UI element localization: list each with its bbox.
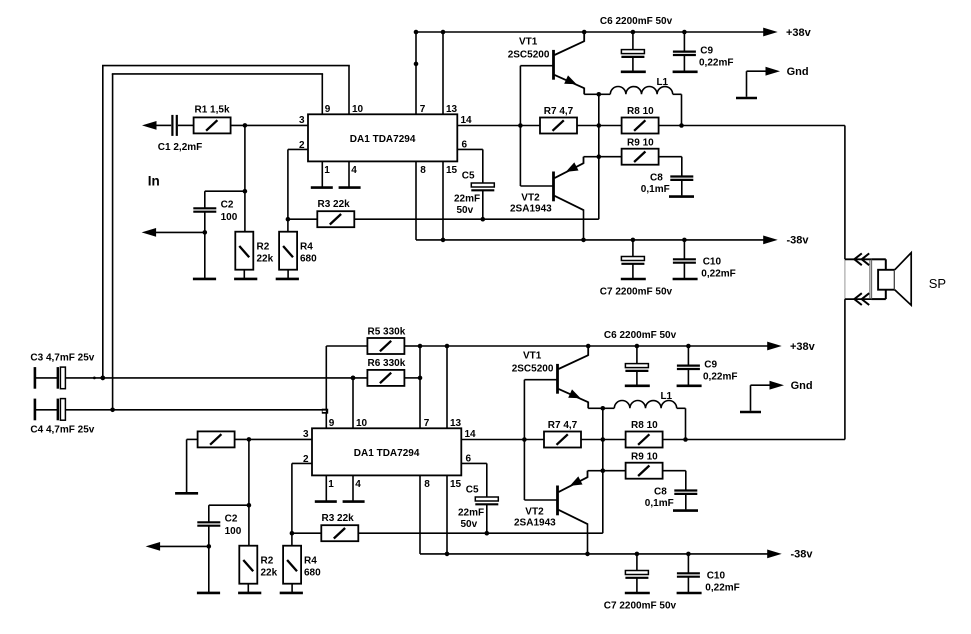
pin 7 wire to +38v rail (channel B) — [419, 346, 421, 428]
wire output bus channel B to speaker — [844, 299, 846, 439]
wire C3 mute line to R6 (shared) — [65, 377, 367, 379]
pin 10 wire up-left (to C3 line) — [348, 66, 350, 115]
node: channel B pin10 joins mute line — [351, 376, 356, 381]
wire C2 to ground (channel B) — [208, 526, 210, 593]
wire faint bus segment between speaker terminals — [844, 259, 846, 299]
node: output node on R8 row (channel A) — [597, 123, 602, 128]
svg-text:VT1: VT1 — [523, 350, 542, 361]
svg-text:R2: R2 — [257, 241, 270, 252]
ground Gnd arrow (channel B) — [740, 380, 813, 412]
svg-text:2: 2 — [303, 454, 309, 465]
node: square junction stby line on pin 9 (channel B) — [322, 409, 328, 414]
ground bar (channel B input) — [175, 492, 198, 495]
wire pin 6 to C5 (channel B) — [461, 462, 487, 464]
wire R2 to ground (channel B) — [247, 584, 249, 593]
svg-text:Gnd: Gnd — [791, 380, 813, 392]
svg-text:C3 4,7mF 25v: C3 4,7mF 25v — [30, 353, 94, 364]
svg-text:2SC5200: 2SC5200 — [512, 363, 554, 374]
wire pin3 node down to R2 (channel B) — [248, 439, 250, 545]
wire VT2 emitter to R9 node (channel A) — [584, 156, 599, 158]
pin 1 wire and ground (channel B) — [315, 475, 337, 501]
svg-text:0,1mF: 0,1mF — [645, 498, 674, 509]
speaker SP — [870, 253, 946, 306]
wire R8 to speaker line (channel A) — [659, 125, 845, 127]
pin 9 wire up-left (to C4 line) — [321, 74, 323, 114]
svg-text:13: 13 — [450, 418, 462, 429]
svg-text:-38v: -38v — [791, 548, 814, 560]
wire R3 to output node (feedback, channel A) — [354, 218, 599, 220]
wire resistor to ground stub — [187, 438, 198, 440]
svg-text:C9: C9 — [704, 360, 717, 371]
wire pin 14 to R7 (channel A) — [457, 125, 540, 127]
svg-text:8: 8 — [420, 165, 426, 176]
svg-text:In: In — [148, 173, 160, 188]
transistor VT2 2SA1943 (channel B) — [514, 471, 588, 529]
resistor R3 22k (channel B) — [321, 513, 358, 541]
svg-text:VT1: VT1 — [519, 36, 538, 47]
svg-text:C6 2200mF 50v: C6 2200mF 50v — [600, 16, 673, 27]
wire pin 6 to C5 (channel A) — [457, 148, 483, 150]
svg-text:C7 2200mF 50v: C7 2200mF 50v — [604, 601, 677, 612]
node: on pin 7 line (channel B) — [418, 376, 423, 381]
ground bar under C2 (channel A) — [193, 278, 216, 281]
svg-text:100: 100 — [225, 526, 242, 537]
node: pin 10 line terminates on C3 wire — [101, 376, 106, 381]
svg-text:L1: L1 — [656, 77, 668, 88]
node: small tick on mute line — [93, 377, 96, 380]
svg-text:4: 4 — [355, 479, 361, 490]
wire VT2 base feed (channel B) — [524, 499, 557, 501]
pin 8 wire to -38v (channel B) — [419, 475, 421, 554]
node: C2 branch junction (channel A) — [243, 189, 248, 194]
-38v arrow and label (channel B) — [767, 548, 813, 560]
node: VT1 collector on +38v rail (channel A) — [582, 30, 587, 35]
node: C5 on feedback line (channel A) — [481, 217, 486, 222]
node: C7 on -38v rail (channel A) — [631, 238, 636, 243]
capacitor C8 0,1mF (channel A) — [641, 173, 694, 196]
node: pin 9 line terminates on C4 wire — [110, 408, 115, 413]
wire pin 2 to divider (channel A) — [288, 148, 308, 150]
svg-text:0,22mF: 0,22mF — [703, 371, 737, 382]
wire VT2 base feed (channel A) — [520, 185, 553, 187]
wire R6 to pin 7 rail line (channel B) — [404, 377, 420, 379]
resistor R4 680 (channel A) — [279, 232, 317, 270]
wire R1 to pin 3 node (channel A) — [231, 124, 308, 126]
capacitor C10 0,22mF (channel B) — [677, 554, 740, 594]
svg-text:DA1 TDA7294: DA1 TDA7294 — [350, 134, 416, 145]
wire R4 to ground (channel B) — [291, 584, 293, 593]
svg-text:680: 680 — [304, 567, 321, 578]
wire VT2 collector to -38v (channel B) — [587, 523, 589, 554]
wire R8 to speaker line (channel B) — [663, 439, 845, 441]
svg-text:C2: C2 — [225, 514, 238, 525]
wire pin 14 to R7 (channel B) — [461, 439, 544, 441]
wire pin 2 to divider (channel B) — [292, 462, 312, 464]
capacitor C3 4,7mF 25v (mute line) — [30, 353, 94, 389]
resistor R1 (unlabeled, channel B input to ground) — [198, 431, 235, 447]
wire junction to C2 (channel A) — [205, 190, 245, 192]
ground bar under R2 (channel A) — [234, 278, 257, 281]
svg-text:50v: 50v — [461, 519, 478, 530]
wire +38v rail (channel A) — [414, 31, 764, 33]
terminal bar under C8 (channel A) — [669, 195, 694, 198]
input arrow lower (channel A) — [142, 228, 205, 237]
wire output node vertical (channel A) — [598, 94, 600, 219]
wire -38v rail (channel A) — [416, 239, 764, 241]
svg-text:R7 4,7: R7 4,7 — [544, 106, 574, 117]
svg-text:6: 6 — [462, 140, 468, 151]
wire junction to C2 (channel B) — [209, 504, 249, 506]
connector chevrons bottom lead — [854, 293, 869, 305]
svg-text:9: 9 — [325, 104, 331, 115]
wire R7 to output node (channel A) — [577, 125, 623, 127]
wire C5 to feedback line (channel A) — [482, 190, 484, 219]
wire C8 to ground bar (channel A) — [681, 180, 683, 196]
wire speaker bottom lead — [845, 298, 872, 300]
capacitor C8 0,1mF (channel B) — [645, 487, 698, 510]
svg-text:10: 10 — [356, 418, 368, 429]
op-amp IC DA1 TDA7294 (channel B) — [312, 428, 461, 475]
wire junction to R3 (channel A) — [288, 218, 317, 220]
node: on pin 7 line (channel A) — [414, 62, 419, 67]
wire base-drive vertical (channel B) — [523, 380, 525, 500]
svg-text:13: 13 — [446, 104, 458, 115]
resistor R8 10 (channel A) — [622, 106, 659, 134]
node: pin 14 line feeds bases (channel B) — [522, 437, 527, 442]
node: output node at L1 (channel A) — [597, 92, 602, 97]
wire +38v rail (channel B) — [420, 345, 768, 347]
svg-text:0,22mF: 0,22mF — [701, 269, 735, 280]
svg-text:0,22mF: 0,22mF — [705, 583, 739, 594]
capacitor C6 2200mF 50v (channel A) — [600, 16, 673, 72]
node: channel A pin10 joins mute line — [101, 376, 106, 381]
svg-text:C5: C5 — [466, 484, 479, 495]
node: C2 branch junction (channel B) — [247, 503, 252, 508]
svg-text:+38v: +38v — [790, 341, 816, 353]
capacitor C6 2200mF 50v (channel B) — [604, 330, 677, 386]
node: L1 joins R8 output (channel B) — [683, 437, 688, 442]
svg-text:R9 10: R9 10 — [631, 451, 658, 462]
svg-text:-38v: -38v — [787, 234, 810, 246]
wire R2 to ground (channel A) — [243, 270, 245, 279]
-38v arrow and label (channel A) — [763, 234, 809, 246]
node: output node on R8 row (channel B) — [601, 437, 606, 442]
node: output node at L1 (channel B) — [601, 406, 606, 411]
svg-text:R4: R4 — [300, 241, 313, 252]
wire junction to R3 (channel B) — [292, 532, 321, 534]
resistor R2 22k (channel B) — [239, 546, 277, 584]
wire R5 to +38v rail (channel B) — [404, 345, 420, 347]
node: C9 on +38v rail (channel A) — [682, 30, 687, 35]
node: C6 on +38v rail (channel A) — [631, 30, 636, 35]
pin 4 wire and ground (channel B) — [343, 475, 365, 501]
capacitor C5 22mF 50v (channel B) — [458, 484, 498, 530]
svg-text:22k: 22k — [257, 253, 274, 264]
node: VT1 collector on +38v rail (channel B) — [586, 344, 591, 349]
node: C6 on +38v rail (channel B) — [635, 344, 640, 349]
svg-text:C10: C10 — [707, 571, 726, 582]
svg-text:VT2: VT2 — [521, 192, 540, 203]
svg-text:14: 14 — [461, 115, 473, 126]
wire output bus channel A to speaker — [844, 126, 846, 260]
svg-text:14: 14 — [465, 429, 477, 440]
wire R9 to C8 (channel A) — [659, 156, 682, 158]
svg-text:C2: C2 — [221, 200, 234, 211]
capacitor C2 100 (channel B) — [197, 514, 241, 538]
node: C7 on -38v rail (channel B) — [635, 552, 640, 557]
wire C2 to ground (channel A) — [204, 212, 206, 279]
inductor L1 (channel B) — [603, 391, 686, 440]
svg-text:R7 4,7: R7 4,7 — [548, 420, 578, 431]
svg-text:R3 22k: R3 22k — [322, 513, 355, 524]
wire VT1 emitter to L1 node (channel B) — [588, 407, 603, 409]
svg-text:22k: 22k — [261, 567, 278, 578]
capacitor C4 4,7mF 25v (stby line) — [30, 399, 94, 436]
capacitor C10 0,22mF (channel A) — [673, 240, 736, 280]
capacitor C5 22mF 50v (channel A) — [454, 170, 494, 216]
wire VT2 collector to -38v (channel A) — [583, 209, 585, 240]
wire C1 to R1 — [178, 124, 194, 126]
svg-text:2SA1943: 2SA1943 — [510, 203, 552, 214]
svg-text:R8 10: R8 10 — [627, 106, 654, 117]
node: pin 7 joins +38v rail (channel A) — [414, 30, 419, 35]
pin 4 wire and ground (channel A) — [339, 161, 361, 187]
resistor R9 10 (channel B) — [626, 451, 663, 478]
resistor R7 4,7 (channel B) — [544, 420, 581, 448]
resistor R8 10 (channel B) — [626, 420, 663, 448]
capacitor C7 2200mF 50v (channel B) — [604, 554, 677, 612]
wire output node vertical (channel B) — [602, 408, 604, 533]
pin 13 wire to +38v rail (channel B) — [446, 346, 448, 428]
ground bar under R2 (channel B) — [238, 592, 261, 595]
svg-text:+38v: +38v — [786, 27, 812, 39]
resistor R3 22k (channel A) — [317, 199, 354, 227]
svg-text:22mF: 22mF — [454, 193, 480, 204]
wire pin3 node down to R2 (channel A) — [244, 125, 246, 231]
svg-text:9: 9 — [329, 418, 335, 429]
svg-text:0,1mF: 0,1mF — [641, 184, 670, 195]
pin 7 wire to +38v rail (channel A) — [415, 32, 417, 114]
ground bar under R4 (channel B) — [280, 592, 303, 595]
node: L1 joins R8 output (channel A) — [679, 123, 684, 128]
svg-text:3: 3 — [299, 115, 305, 126]
svg-text:4: 4 — [351, 165, 357, 176]
svg-text:C4 4,7mF 25v: C4 4,7mF 25v — [30, 425, 94, 436]
svg-text:R5 330k: R5 330k — [368, 326, 406, 337]
svg-text:100: 100 — [221, 212, 238, 223]
svg-text:Gnd: Gnd — [787, 66, 809, 78]
connector chevrons top lead — [854, 253, 869, 265]
wire R7 to output node (channel B) — [581, 439, 627, 441]
input arrow In (pin 3 line) — [142, 121, 171, 130]
pin 9 wire up to R5 (channel B) — [325, 346, 327, 428]
inductor L1 (channel A) — [599, 77, 682, 126]
svg-text:2SA1943: 2SA1943 — [514, 517, 556, 528]
svg-text:50v: 50v — [457, 205, 474, 216]
terminal bar under C8 (channel B) — [673, 509, 698, 512]
node: VT2 collector on -38v line (channel A) — [581, 238, 586, 243]
node: C10 on -38v rail (channel A) — [682, 238, 687, 243]
svg-text:R2: R2 — [261, 555, 274, 566]
wire R9 left to node (channel B) — [603, 470, 626, 472]
svg-text:L1: L1 — [660, 391, 672, 402]
node: pin 13 on +38v rail (channel A) — [441, 30, 446, 35]
node: C9 on +38v rail (channel B) — [686, 344, 691, 349]
node: C5 on feedback line (channel B) — [485, 531, 490, 536]
svg-text:15: 15 — [446, 165, 458, 176]
svg-text:7: 7 — [424, 418, 430, 429]
svg-text:0,22mF: 0,22mF — [699, 57, 733, 68]
wire speaker top lead — [845, 258, 872, 260]
svg-text:R3 22k: R3 22k — [318, 199, 351, 210]
node: feedback junction R3/R4 (channel A) — [286, 217, 291, 222]
node: feedback junction R3/R4 (channel B) — [290, 531, 295, 536]
wire C8 to ground bar (channel B) — [685, 494, 687, 510]
ground bar under C2 (channel B) — [197, 592, 220, 595]
pin 8 wire to -38v (channel A) — [415, 161, 417, 240]
node: arrow line meets C2 wire (channel A) — [203, 230, 208, 235]
resistor R1 1,5k — [194, 105, 231, 134]
wire R3 to output node (feedback, channel B) — [358, 532, 603, 534]
+38v arrow and label (channel A) — [763, 27, 811, 39]
wire VT1 base feed (channel B) — [524, 379, 557, 381]
node: R9 tap on output vertical (channel A) — [597, 154, 602, 159]
ground bar under R4 (channel A) — [276, 278, 299, 281]
svg-text:C10: C10 — [703, 257, 722, 268]
wire R9 left to node (channel A) — [599, 156, 622, 158]
svg-text:C9: C9 — [700, 46, 713, 57]
svg-text:3: 3 — [303, 429, 309, 440]
wire VT2 emitter to R9 node (channel B) — [588, 470, 603, 472]
svg-text:C8: C8 — [650, 173, 663, 184]
svg-text:6: 6 — [466, 454, 472, 465]
svg-text:7: 7 — [420, 104, 426, 115]
resistor R7 4,7 (channel A) — [540, 106, 577, 134]
wire -38v rail (channel B) — [420, 553, 768, 555]
pin 1 wire and ground (channel A) — [311, 161, 333, 187]
svg-text:8: 8 — [424, 479, 430, 490]
svg-text:C6 2200mF 50v: C6 2200mF 50v — [604, 330, 677, 341]
svg-text:SP: SP — [929, 276, 946, 291]
node: pin 15 on -38v rail (channel A) — [441, 238, 446, 243]
svg-text:C1 2,2mF: C1 2,2mF — [158, 142, 202, 153]
node: arrow line meets C2 wire (channel B) — [207, 544, 212, 549]
node: R9 tap on output vertical (channel B) — [601, 468, 606, 473]
wire VT1 emitter to L1 node (channel A) — [584, 93, 599, 95]
resistor R2 22k (channel A) — [235, 232, 273, 270]
svg-text:VT2: VT2 — [525, 506, 544, 517]
svg-text:22mF: 22mF — [458, 507, 484, 518]
wire VT1 base feed (channel A) — [520, 65, 553, 67]
capacitor C7 2200mF 50v (channel A) — [600, 240, 673, 298]
capacitor C1 2,2mF — [158, 115, 202, 153]
wire R4 to ground (channel A) — [287, 270, 289, 279]
node: junction R1/pin3/feedback divider (channel B) — [247, 437, 252, 442]
svg-text:C8: C8 — [654, 487, 667, 498]
wire C5 to feedback line (channel B) — [486, 504, 488, 533]
svg-text:1: 1 — [328, 479, 334, 490]
capacitor C9 0,22mF (channel B) — [677, 346, 738, 386]
svg-text:R9 10: R9 10 — [627, 137, 654, 148]
input arrow lower (channel B) — [146, 542, 209, 551]
transistor VT2 2SA1943 (channel A) — [510, 157, 584, 215]
pin 13 wire to +38v rail (channel A) — [442, 32, 444, 114]
wire base-drive vertical (channel A) — [519, 66, 521, 186]
node: C10 on -38v rail (channel B) — [686, 552, 691, 557]
wire R9 to C8 (channel B) — [663, 470, 686, 472]
node: junction R1/pin3/feedback divider (channel A) — [243, 123, 248, 128]
node: pin 13 on +38v rail (channel B) — [445, 344, 450, 349]
svg-text:R4: R4 — [304, 555, 317, 566]
node: pin 10 meets mute line (channel B) — [351, 376, 356, 381]
resistor R6 330k (channel B) — [367, 358, 405, 386]
svg-text:2: 2 — [299, 140, 305, 151]
ground Gnd arrow (channel A) — [736, 66, 809, 98]
transistor VT1 2SC5200 (channel B) — [512, 346, 589, 408]
svg-text:15: 15 — [450, 479, 462, 490]
svg-text:C7 2200mF 50v: C7 2200mF 50v — [600, 287, 673, 298]
svg-text:2SC5200: 2SC5200 — [508, 49, 550, 60]
node: pin 7 top corner (channel B) — [418, 344, 423, 349]
svg-text:R8 10: R8 10 — [631, 420, 658, 431]
svg-text:10: 10 — [352, 104, 364, 115]
resistor R9 10 (channel A) — [622, 137, 659, 164]
pin 15 wire to -38v (channel B) — [446, 475, 448, 554]
wire R1 to pin 3 node (channel B) — [235, 438, 312, 440]
op-amp IC DA1 TDA7294 (channel A) — [308, 114, 457, 161]
+38v arrow and label (channel B) — [767, 341, 815, 353]
node: VT2 collector on -38v line (channel B) — [585, 552, 590, 557]
capacitor C2 100 (channel A) — [193, 200, 237, 224]
resistor R5 330k (channel B) — [367, 326, 405, 354]
node: pin 14 line feeds bases (channel A) — [518, 123, 523, 128]
capacitor C9 0,22mF (channel A) — [673, 32, 734, 72]
resistor R4 680 (channel B) — [283, 546, 321, 584]
svg-text:680: 680 — [300, 253, 317, 264]
wire C4 stby line to channel B pin 9 (shared) — [65, 409, 326, 411]
pin 15 wire to -38v (channel A) — [442, 161, 444, 240]
node: pin 15 on -38v rail (channel B) — [445, 552, 450, 557]
transistor VT1 2SC5200 (channel A) — [508, 32, 585, 94]
svg-text:1: 1 — [324, 165, 330, 176]
svg-text:R1 1,5k: R1 1,5k — [195, 105, 230, 116]
svg-text:R6 330k: R6 330k — [368, 358, 406, 369]
svg-text:DA1 TDA7294: DA1 TDA7294 — [354, 448, 420, 459]
pin 10 wire up to R6 row (channel B) — [352, 378, 354, 428]
svg-text:C5: C5 — [462, 170, 475, 181]
